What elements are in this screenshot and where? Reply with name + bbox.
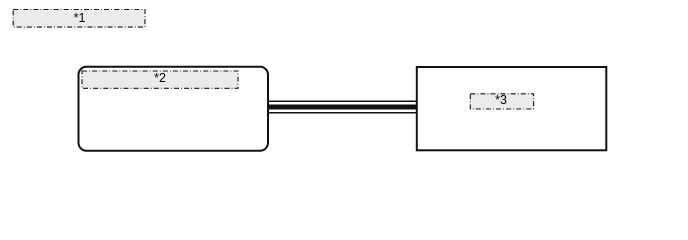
label *1 — [13, 10, 145, 28]
wire harness bottom line — [267, 112, 418, 114]
component box right — [417, 67, 607, 150]
svg-text:*1: *1 — [74, 11, 86, 25]
svg-text:*3: *3 — [495, 93, 507, 107]
wire harness top line — [267, 100, 418, 102]
label *3 — [470, 93, 533, 109]
component box left (rounded) — [79, 67, 269, 151]
label *2 — [82, 71, 238, 88]
svg-text:*2: *2 — [154, 71, 166, 85]
wire harness thick center line — [267, 105, 418, 110]
